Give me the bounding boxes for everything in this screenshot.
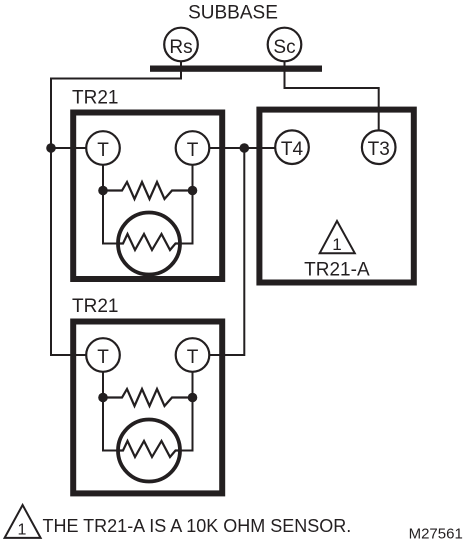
terminal T (top box left) <box>86 131 120 165</box>
svg-text:THE TR21-A IS A 10K OHM SENSOR: THE TR21-A IS A 10K OHM SENSOR. <box>43 516 352 536</box>
wire Sc to T3 <box>285 72 379 132</box>
wire left T down to node (bottom box) <box>102 372 104 398</box>
terminal T (bottom box right) <box>176 338 210 372</box>
wire node to thermistor left (top box) <box>103 191 118 244</box>
terminal Rs <box>164 28 198 62</box>
terminal T4 <box>275 130 309 164</box>
svg-text:Rs: Rs <box>169 37 192 58</box>
box TR21 bottom <box>73 322 222 494</box>
thermistor circle (top box) <box>118 213 180 275</box>
wire Rs to left bus down to bottom TR21 left T <box>51 72 181 356</box>
svg-text:T3: T3 <box>368 139 390 160</box>
resistor (bottom box) <box>103 389 193 406</box>
wire right T down to node (bottom box) <box>192 372 194 398</box>
wire left T down to node (top box) <box>102 165 104 191</box>
node right (bottom box) <box>188 393 198 403</box>
svg-text:1: 1 <box>17 521 26 538</box>
thermistor circle (bottom box) <box>118 420 180 482</box>
junction node right <box>240 143 250 153</box>
wire Sc stem <box>284 61 286 67</box>
node left (top box) <box>98 186 108 196</box>
thermistor element zigzag (top box) <box>118 234 180 250</box>
wire node to thermistor right (top box) <box>180 191 193 244</box>
svg-text:Sc: Sc <box>273 37 295 58</box>
node right (top box) <box>188 186 198 196</box>
svg-text:T: T <box>97 140 109 161</box>
svg-text:M27561: M27561 <box>409 526 463 543</box>
svg-text:SUBBASE: SUBBASE <box>188 2 278 23</box>
svg-text:T: T <box>187 140 199 161</box>
box TR21-A <box>259 110 413 283</box>
wire branch to top TR21 left T <box>51 147 87 149</box>
terminal T3 <box>362 130 396 164</box>
node left (bottom box) <box>98 393 108 403</box>
resistor (top box) <box>103 182 193 199</box>
thermistor element zigzag (bottom box) <box>118 441 180 457</box>
terminal Sc <box>268 28 302 62</box>
note callout triangle 1 <box>5 505 41 538</box>
wire Rs stem <box>180 61 182 67</box>
wire right T down to node (top box) <box>192 165 194 191</box>
wire junction down to bottom TR21 right T <box>209 148 244 355</box>
svg-text:T: T <box>97 347 109 368</box>
terminal T (bottom box left) <box>86 338 120 372</box>
wire top TR21 right T to T4 <box>209 147 276 149</box>
svg-text:1: 1 <box>332 235 341 254</box>
svg-text:TR21-A: TR21-A <box>304 259 370 280</box>
box TR21 top <box>73 113 222 280</box>
terminal T (top box right) <box>176 131 210 165</box>
wire node to thermistor right (bottom box) <box>180 398 193 451</box>
svg-text:T4: T4 <box>281 139 304 160</box>
wire node to thermistor left (bottom box) <box>103 398 118 451</box>
svg-text:TR21: TR21 <box>72 296 118 317</box>
callout triangle 1 (TR21-A) <box>320 221 355 254</box>
svg-text:TR21: TR21 <box>72 88 118 109</box>
svg-text:T: T <box>187 347 199 368</box>
subbase terminal bar <box>150 66 322 72</box>
junction node left <box>46 143 56 153</box>
